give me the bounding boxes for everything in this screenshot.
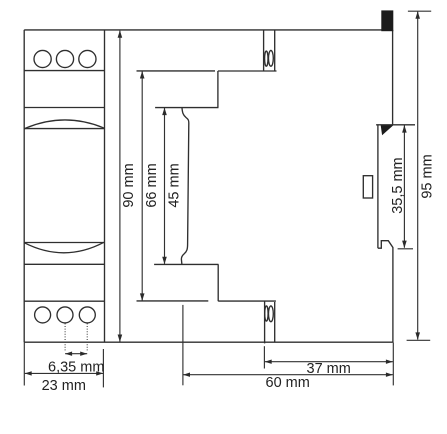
front view upper arc chord line xyxy=(24,128,104,130)
37 mm left extension tick xyxy=(263,346,265,368)
dimension 6,35 mm line xyxy=(65,353,87,355)
front view bottom terminal separator line xyxy=(24,300,104,302)
dimension 95 mm line xyxy=(417,12,419,340)
side view DIN clip top (black) xyxy=(381,10,393,31)
dimension 95 mm bottom extension tick xyxy=(407,339,431,341)
arrowhead 23 mm left xyxy=(25,371,32,375)
side view lower shelf (45mm bottom extension) xyxy=(154,263,218,265)
side view top terminal block inner edge xyxy=(274,31,276,72)
side view upper shelf (45mm top extension) xyxy=(155,107,218,109)
arrowhead 95 mm top xyxy=(415,11,420,19)
svg-text:90 mm: 90 mm xyxy=(121,163,137,207)
front view lower arc chord line xyxy=(24,242,104,244)
side view bottom terminal screw slot (inner oval) xyxy=(269,306,274,322)
dimension 35,5 mm bottom extension tick xyxy=(398,248,413,250)
svg-text:35,5 mm: 35,5 mm xyxy=(390,157,406,213)
dimension 45 mm line xyxy=(164,108,166,264)
front view left edge xyxy=(23,30,25,342)
side view front face with fillets xyxy=(181,108,188,264)
front view upper panel line xyxy=(24,107,104,109)
front view lower arc xyxy=(24,242,104,252)
top terminal screw 1 xyxy=(34,50,51,67)
23 mm left extension line xyxy=(23,342,25,385)
side view top terminal screw slot (outer oval) xyxy=(265,51,268,66)
bottom terminal screw 2 xyxy=(57,307,73,323)
top terminal screw 2 xyxy=(56,50,73,67)
side view bottom terminal block inner edge xyxy=(274,302,276,342)
side view bottom terminal screw slot (outer oval) xyxy=(265,306,268,321)
arrowhead 6,35 mm left xyxy=(65,352,72,356)
side view back upper edge xyxy=(392,30,394,125)
svg-text:95 mm: 95 mm xyxy=(420,154,436,198)
arrowhead 60 mm right xyxy=(386,373,393,377)
dimension 35,5 mm line xyxy=(403,126,405,248)
arrowhead 60 mm left xyxy=(183,373,190,377)
side view small rectangular hole xyxy=(363,176,372,198)
svg-text:37 mm: 37 mm xyxy=(307,361,351,377)
arrowhead 95 mm bottom xyxy=(415,332,420,340)
side view upper front step edge xyxy=(217,71,219,108)
svg-text:6,35 mm: 6,35 mm xyxy=(48,359,104,375)
svg-text:45 mm: 45 mm xyxy=(166,163,182,207)
wire top extension line (front-view top edge + side-view top surface, y=29.9) xyxy=(24,29,392,31)
svg-text:66 mm: 66 mm xyxy=(144,163,160,207)
dimension 23 mm line xyxy=(25,372,104,374)
arrowhead 37 mm left xyxy=(265,360,272,364)
66mm top extension line xyxy=(137,70,216,72)
side view top terminal screw slot (inner oval) xyxy=(269,50,274,66)
arrowhead 45 mm top xyxy=(162,108,167,116)
dimension 66 mm line xyxy=(141,71,143,300)
side view lower front step edge xyxy=(217,264,219,301)
side view bottom terminal block front edge xyxy=(264,301,266,343)
front view right edge xyxy=(104,30,106,342)
side view DIN clip hook (black wedge) xyxy=(381,125,394,135)
bottom terminal screw 3 xyxy=(79,307,95,323)
arrowhead 35,5 mm top xyxy=(402,125,407,133)
svg-text:60 mm: 60 mm xyxy=(266,375,310,391)
arrowhead 6,35 mm right xyxy=(80,352,87,356)
side view DIN notch top line (35.5mm top extension) xyxy=(376,124,415,126)
arrowhead 66 mm bottom xyxy=(140,293,145,301)
front view lower panel line xyxy=(24,263,104,265)
top terminal screw 3 xyxy=(79,50,96,67)
dimension 37 mm line xyxy=(265,361,393,363)
side view lower shelf line to bottom terminal xyxy=(218,300,276,302)
arrowhead 37 mm right xyxy=(386,360,393,364)
23 mm right extension line xyxy=(102,349,104,387)
dotted projection line from bottom screw 2 xyxy=(64,323,66,351)
front view upper arc xyxy=(24,120,104,129)
side view DIN spring clip step and lower back edge xyxy=(378,241,393,343)
arrowhead 90 mm bottom xyxy=(118,335,123,343)
arrowhead 23 mm right xyxy=(96,371,103,375)
arrowhead 66 mm top xyxy=(140,71,145,79)
66mm bottom extension line xyxy=(137,300,209,302)
arrowhead 45 mm bottom xyxy=(162,257,167,265)
dimension 95 mm top extension tick xyxy=(408,10,431,12)
arrowhead 90 mm top xyxy=(118,30,123,38)
svg-text:23 mm: 23 mm xyxy=(42,378,86,394)
dotted projection line from bottom screw 3 xyxy=(86,323,88,351)
dimension 60 mm line xyxy=(183,374,393,376)
arrowhead 35,5 mm bottom xyxy=(402,241,407,249)
60 mm left extension line xyxy=(182,305,184,385)
wire bottom extension line (front-view bottom edge + side-view bottom surface, y=342.2) xyxy=(24,341,393,343)
bottom terminal screw 1 xyxy=(35,307,51,323)
side view top terminal block front edge xyxy=(263,30,265,71)
front view top terminal separator line xyxy=(24,70,104,72)
side view top terminal block bottom + upper shelf line xyxy=(218,70,277,72)
60/37 mm right extension line xyxy=(392,342,394,385)
dimension 90 mm line xyxy=(119,31,121,342)
side view recessed back edge xyxy=(377,125,379,248)
